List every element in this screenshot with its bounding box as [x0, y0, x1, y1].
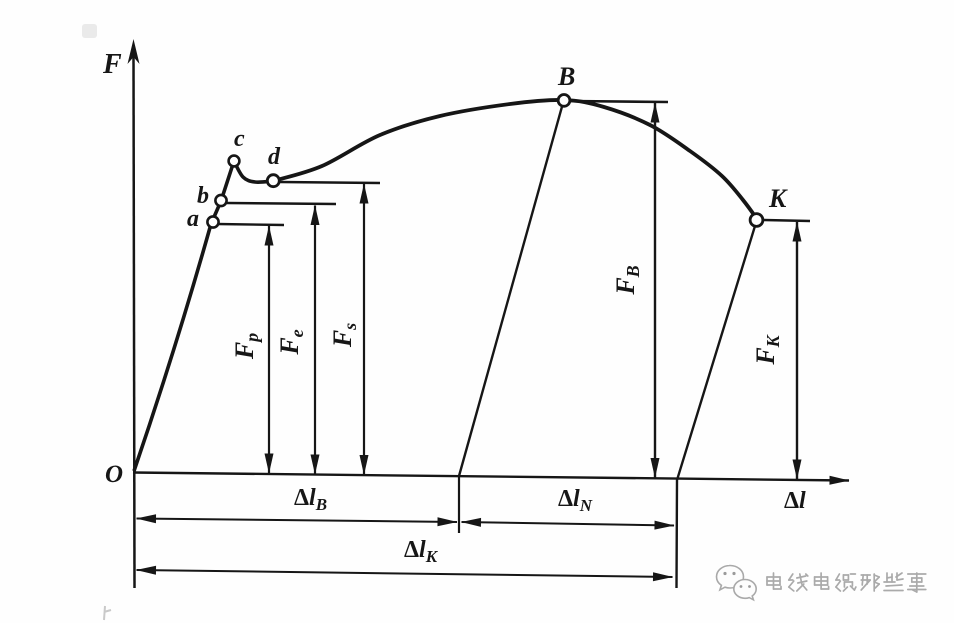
svg-text:B: B [557, 62, 575, 91]
point d [267, 175, 279, 187]
svg-text:a: a [187, 206, 199, 232]
svg-text:O: O [105, 461, 123, 488]
scan mark bottom-left [104, 606, 111, 620]
point b [215, 195, 226, 206]
point a [207, 216, 218, 227]
elastic line O to a [134, 224, 211, 471]
svg-text:d: d [268, 144, 281, 170]
dimension dlK [137, 570, 673, 577]
y-axis F [134, 55, 135, 588]
point B [558, 95, 570, 107]
tick line at b [227, 203, 336, 204]
svg-text:Fe: Fe [275, 329, 307, 355]
tick line at a [217, 224, 284, 225]
dimension FK [796, 222, 798, 479]
main curve d to B to K [273, 100, 757, 219]
svg-text:K: K [768, 184, 788, 213]
x-axis [133, 473, 849, 481]
yield dip c to d [234, 161, 273, 182]
watermark text "电线电缆那些事" (drawn strokes) [767, 573, 926, 592]
svg-text:b: b [197, 183, 209, 209]
dimension dlN [462, 522, 675, 526]
svg-text:Fp: Fp [230, 333, 262, 360]
svg-text:c: c [234, 126, 245, 152]
point c [229, 156, 240, 167]
unloading slant line from B [459, 103, 563, 476]
svg-text:ΔlK: ΔlK [404, 537, 439, 566]
dimension Fe [314, 206, 316, 475]
svg-text:Δl: Δl [784, 488, 806, 514]
svg-text:FK: FK [751, 333, 783, 365]
point K [750, 214, 763, 227]
y-axis arrowhead [128, 39, 140, 64]
watermark wechat icon [717, 565, 757, 599]
slant line from K and extension below [677, 226, 756, 588]
dimension Fp [268, 226, 270, 473]
svg-text:ΔlB: ΔlB [294, 485, 327, 514]
svg-text:FB: FB [611, 265, 643, 295]
tick line at K [764, 220, 810, 221]
tick line at B [570, 101, 668, 102]
dimension FB [654, 103, 656, 478]
svg-text:F: F [102, 49, 122, 80]
dimension dlB [137, 519, 458, 523]
svg-text:Fs: Fs [328, 323, 360, 348]
svg-text:ΔlN: ΔlN [558, 486, 593, 515]
segment a-b-c [211, 161, 234, 224]
tick line at d [280, 182, 380, 183]
dimension Fs [363, 184, 365, 475]
scan smudge top-left [82, 24, 97, 38]
extension line below B [458, 476, 460, 533]
